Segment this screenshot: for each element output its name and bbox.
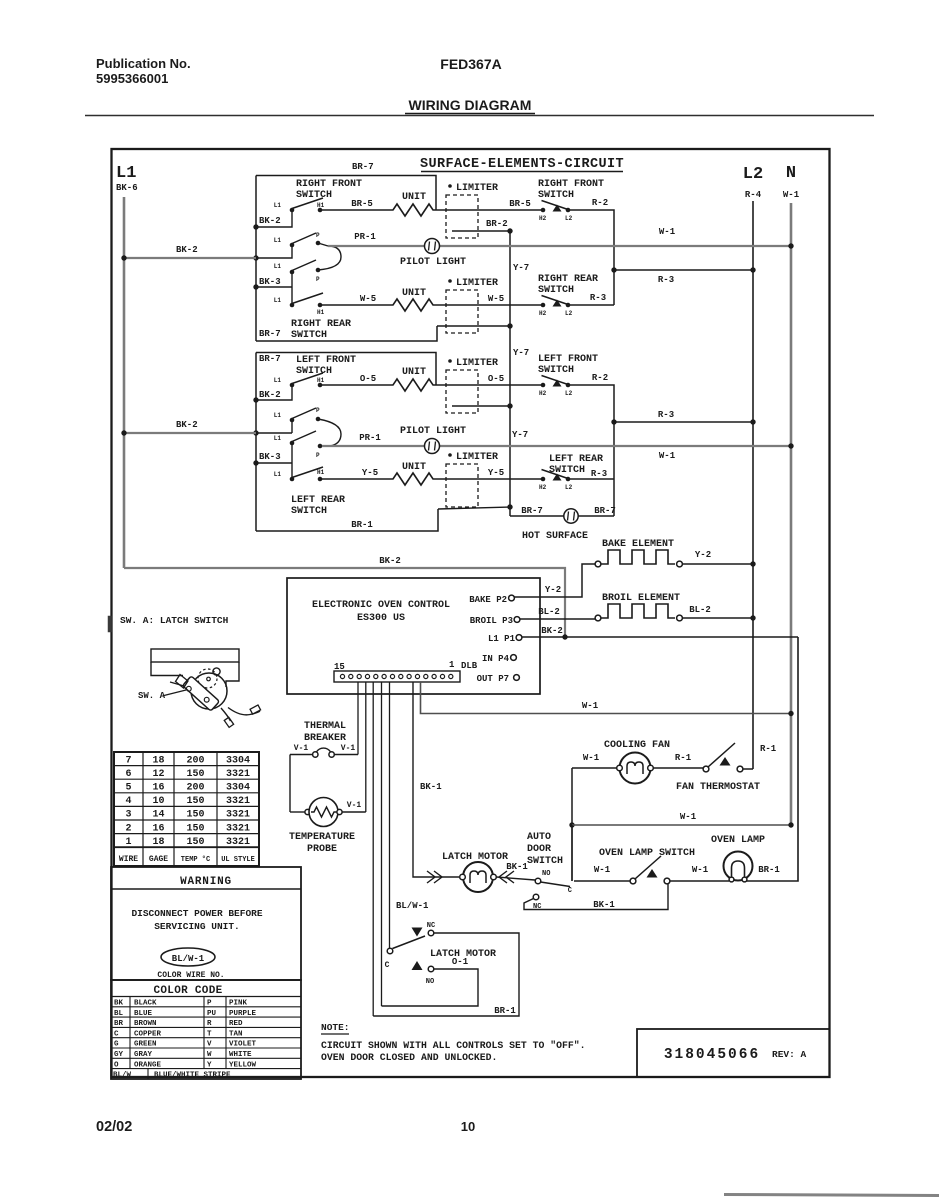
svg-text:BR: BR <box>114 1020 124 1028</box>
wire stub to pilot2 upper <box>256 420 292 433</box>
header publication number text <box>96 56 191 86</box>
label SW. A: LATCH SWITCH <box>120 615 229 626</box>
wire label Y-2 (bake right) <box>695 550 711 560</box>
svg-text:W-1: W-1 <box>582 701 599 711</box>
svg-text:BAKE ELEMENT: BAKE ELEMENT <box>602 539 674 550</box>
svg-text:12: 12 <box>152 769 164 780</box>
wire BK-2 feed 2 from L1 rail <box>121 430 256 435</box>
label ES300 US <box>357 613 405 624</box>
scan artifact line bottom right <box>724 1195 939 1196</box>
svg-text:L2: L2 <box>565 390 573 397</box>
wire label BK-2 (group1) <box>259 216 281 226</box>
wire label W-1 (to lamp sw) <box>594 865 611 875</box>
label LEFT FRONT SWITCH (right) <box>538 354 598 376</box>
pin label H1 (lf) <box>317 377 325 384</box>
resistor UNIT right rear <box>389 299 437 311</box>
wire W-1 lamp neutral line <box>572 824 789 826</box>
bake element coil <box>601 550 675 564</box>
pin label L1 (pilot lower) <box>274 263 282 270</box>
junction g2 y400 <box>253 397 258 402</box>
svg-text:150: 150 <box>186 769 204 780</box>
wire R-2 to drop <box>568 210 614 305</box>
svg-text:3321: 3321 <box>226 837 250 848</box>
svg-text:L2: L2 <box>565 310 573 317</box>
label LATCH MOTOR (lower) <box>430 949 496 960</box>
wire label R-3 (rr) <box>590 293 606 303</box>
label LEFT REAR SWITCH (right) <box>549 454 603 476</box>
wire PR-1 / W-1 pilot line (lower) <box>322 445 789 447</box>
pin number 1 and DLB <box>449 660 478 671</box>
svg-text:10: 10 <box>461 1119 475 1134</box>
warning text <box>131 908 262 932</box>
wire pin to temperature probe <box>365 682 367 812</box>
svg-text:ELECTRONIC OVEN CONTROL: ELECTRONIC OVEN CONTROL <box>312 600 450 611</box>
junction g2 y433 <box>253 430 258 435</box>
wire group 2 bottom run <box>256 509 438 531</box>
label LEFT FRONT SWITCH (left) <box>296 355 356 377</box>
label LEFT REAR SWITCH (left) <box>291 495 345 517</box>
svg-text:SWITCH: SWITCH <box>538 190 574 201</box>
EOC control box <box>287 578 540 694</box>
color code table <box>111 980 301 1080</box>
svg-text:BLUE: BLUE <box>134 1010 153 1018</box>
pin label H2 (rr) <box>539 310 547 317</box>
svg-text:VIOLET: VIOLET <box>229 1041 257 1049</box>
svg-text:Y-5: Y-5 <box>488 468 504 478</box>
svg-text:V: V <box>207 1041 212 1049</box>
label REV: A <box>772 1049 807 1060</box>
lower latch NC contact <box>412 928 434 937</box>
svg-text:150: 150 <box>186 796 204 807</box>
wire label BR-7 (hs left) <box>521 506 543 516</box>
svg-text:HOT SURFACE: HOT SURFACE <box>522 531 588 542</box>
svg-text:OVEN DOOR CLOSED AND UNLOCKED.: OVEN DOOR CLOSED AND UNLOCKED. <box>321 1052 497 1063</box>
svg-text:L2: L2 <box>743 165 763 184</box>
svg-text:V-1: V-1 <box>341 744 356 753</box>
latch switch cords and plugs <box>221 705 261 727</box>
svg-text:P: P <box>316 232 320 239</box>
svg-text:200: 200 <box>186 783 204 794</box>
svg-text:BK-1: BK-1 <box>593 900 615 910</box>
svg-text:BK-3: BK-3 <box>259 277 281 287</box>
svg-text:R: R <box>207 1020 212 1028</box>
svg-text:BR-7: BR-7 <box>259 329 281 339</box>
junction on left bus y287 <box>253 284 258 289</box>
svg-text:BK-3: BK-3 <box>259 452 281 462</box>
oven lamp <box>724 852 753 882</box>
svg-text:WIRING DIAGRAM: WIRING DIAGRAM <box>409 97 532 113</box>
svg-text:ORANGE: ORANGE <box>134 1061 162 1069</box>
junction R-3 node 2 <box>611 419 616 424</box>
pin label L1 (p2l) <box>274 435 282 442</box>
svg-text:LIMITER: LIMITER <box>456 278 498 289</box>
svg-text:Y: Y <box>207 1061 212 1069</box>
label TEMPERATURE PROBE <box>289 832 355 855</box>
svg-text:BK: BK <box>114 1000 124 1008</box>
warning box frame <box>111 867 301 980</box>
svg-text:H1: H1 <box>317 377 325 384</box>
svg-text:OVEN LAMP: OVEN LAMP <box>711 835 765 846</box>
svg-text:BL/W: BL/W <box>113 1072 132 1080</box>
svg-text:W-1: W-1 <box>594 865 611 875</box>
svg-text:H2: H2 <box>539 310 547 317</box>
svg-text:Y-7: Y-7 <box>513 263 529 273</box>
svg-text:200: 200 <box>186 755 204 766</box>
label AUTO DOOR SWITCH <box>527 832 563 867</box>
wire label R-2 <box>592 198 608 208</box>
svg-text:CIRCUIT SHOWN WITH ALL CONTROL: CIRCUIT SHOWN WITH ALL CONTROLS SET TO "… <box>321 1040 586 1051</box>
pin label H2 (lf) <box>539 390 547 397</box>
switch pilot2 lower (L1/P) <box>290 431 323 448</box>
svg-text:BK-1: BK-1 <box>506 862 528 872</box>
limiter box 1 (right front) <box>446 195 478 238</box>
svg-text:H1: H1 <box>317 202 325 209</box>
wire BL/W-1 pin to door switch C <box>389 682 391 948</box>
svg-text:W-1: W-1 <box>659 451 676 461</box>
svg-text:SW. A: LATCH SWITCH: SW. A: LATCH SWITCH <box>120 615 229 626</box>
broil element coil <box>601 604 675 618</box>
svg-text:3321: 3321 <box>226 823 250 834</box>
wire limiter4 tap to BR-7 line <box>438 504 513 509</box>
svg-text:P: P <box>316 407 320 414</box>
svg-text:L2: L2 <box>565 484 573 491</box>
node L1 <box>116 164 136 183</box>
svg-text:GREEN: GREEN <box>134 1041 157 1049</box>
wire breaker to probe <box>289 755 291 813</box>
svg-text:5995366001: 5995366001 <box>96 71 168 86</box>
wire label BL-2 (P3) <box>538 607 560 617</box>
resistor UNIT left front <box>389 379 437 391</box>
svg-text:BLACK: BLACK <box>134 1000 157 1008</box>
wire broil to BROIL P3 <box>520 618 595 620</box>
svg-text:R-2: R-2 <box>592 373 608 383</box>
label HOT SURFACE <box>522 531 588 542</box>
svg-text:BR-7: BR-7 <box>352 162 374 172</box>
svg-text:R-3: R-3 <box>591 469 607 479</box>
wire label O-1 <box>452 957 469 967</box>
svg-text:DISCONNECT POWER BEFORE: DISCONNECT POWER BEFORE <box>131 908 262 919</box>
svg-text:BR-2: BR-2 <box>486 219 508 229</box>
wire N rail (W-1) <box>790 203 793 825</box>
svg-text:BK-2: BK-2 <box>259 216 281 226</box>
svg-text:6: 6 <box>125 769 131 780</box>
wire BR-7 group 2 box top/right <box>256 353 436 386</box>
pin label L1 (lr) <box>274 471 282 478</box>
wire bake to BAKE P2 <box>514 564 595 597</box>
wire label Y-5 <box>362 468 378 478</box>
auto door switch NC contact <box>533 894 541 911</box>
label ELECTRONIC OVEN CONTROL <box>312 600 450 611</box>
wire BK-2 feed from L1 rail <box>121 255 256 260</box>
resistor UNIT right front <box>389 204 437 216</box>
wire group 2 left bus <box>255 353 257 532</box>
svg-text:DOOR: DOOR <box>527 844 551 855</box>
svg-text:3304: 3304 <box>226 755 250 766</box>
node L2 <box>743 165 763 184</box>
svg-text:150: 150 <box>186 823 204 834</box>
border scan blotch <box>108 616 112 632</box>
svg-text:BROWN: BROWN <box>134 1020 157 1028</box>
svg-text:BK-2: BK-2 <box>176 245 198 255</box>
label RIGHT REAR SWITCH (right) <box>538 274 598 296</box>
svg-text:W-1: W-1 <box>692 865 709 875</box>
label LIMITER 3 <box>448 358 498 369</box>
part number 318045066 <box>664 1047 760 1063</box>
svg-text:FAN THERMOSTAT: FAN THERMOSTAT <box>676 782 760 793</box>
svg-text:SWITCH: SWITCH <box>296 190 332 201</box>
wire label W-1 (lamp left) <box>692 865 709 875</box>
wire label BK-2 (feed2) <box>176 420 198 430</box>
cooling fan motor <box>572 753 703 784</box>
svg-text:O: O <box>114 1061 119 1069</box>
wire limiter3 tap to Y-7 <box>452 403 513 408</box>
svg-text:L1: L1 <box>274 202 282 209</box>
note text <box>321 1040 586 1063</box>
part number box <box>637 1029 830 1077</box>
wire label BK-1 (door sw) <box>506 862 528 872</box>
switch right front surface (L1/H1) <box>290 198 323 212</box>
wire unit to right front switch 2 <box>437 209 543 211</box>
wire label R-3 (lr) <box>591 469 607 479</box>
svg-text:WIRE: WIRE <box>119 855 138 864</box>
pin label L2 <box>565 215 573 222</box>
pin label L1 (p2u) <box>274 412 282 419</box>
auto door switch lever <box>541 882 571 887</box>
label OVEN LAMP <box>711 835 765 846</box>
svg-text:W-1: W-1 <box>659 227 676 237</box>
svg-text:W-1: W-1 <box>783 190 800 200</box>
svg-text:COOLING FAN: COOLING FAN <box>604 740 670 751</box>
svg-text:RED: RED <box>229 1020 243 1028</box>
svg-text:7: 7 <box>125 755 131 766</box>
pin label L1 <box>274 202 282 209</box>
svg-text:C: C <box>114 1030 119 1038</box>
label BROIL ELEMENT <box>602 593 680 604</box>
svg-text:LEFT FRONT: LEFT FRONT <box>296 355 356 366</box>
svg-text:PR-1: PR-1 <box>354 232 376 242</box>
label LIMITER 2 <box>448 278 498 289</box>
wire group 1 bottom run <box>256 326 437 341</box>
hot surface indicator light <box>564 509 578 523</box>
svg-text:Y-2: Y-2 <box>545 585 561 595</box>
svg-text:TEMPERATURE: TEMPERATURE <box>289 832 355 843</box>
svg-text:L1: L1 <box>274 237 282 244</box>
wire BK-1 pin to latch motor <box>413 682 459 877</box>
svg-text:OUT P7: OUT P7 <box>477 674 509 684</box>
svg-text:BK-6: BK-6 <box>116 183 138 193</box>
svg-text:PILOT LIGHT: PILOT LIGHT <box>400 257 466 268</box>
wire label BK-3 (group1) <box>259 277 281 287</box>
svg-text:3321: 3321 <box>226 769 250 780</box>
wire lamp switch to oven lamp <box>670 880 729 882</box>
svg-text:SWITCH: SWITCH <box>538 285 574 296</box>
wire label R-1 (fan right) <box>675 753 692 763</box>
wire label R-2 (lf) <box>592 373 608 383</box>
wire Y-7 vertical bus <box>509 231 511 516</box>
svg-text:BR-7: BR-7 <box>259 354 281 364</box>
svg-text:NO: NO <box>542 870 550 878</box>
terminal BROIL P3 <box>470 616 520 626</box>
label COOLING FAN <box>604 740 670 751</box>
connector chevrons left of latch motor <box>427 871 442 883</box>
svg-text:LIMITER: LIMITER <box>456 358 498 369</box>
wire BR-7 top run (group 1 box top/right) <box>256 176 436 211</box>
header model number FED367A <box>440 56 501 72</box>
wire R-3 right rear up to node <box>568 304 614 306</box>
wire label W-1 (N rail) <box>783 190 800 200</box>
wire NO loop <box>382 969 479 1006</box>
EOC connector strip P1 pins 15..1 <box>334 671 460 682</box>
label THERMAL BREAKER <box>304 721 346 744</box>
svg-text:BK-1: BK-1 <box>420 782 442 792</box>
switch left rear surface (L1/H1) <box>290 467 323 481</box>
pin label H2 <box>539 215 547 222</box>
svg-text:R-4: R-4 <box>745 190 762 200</box>
wire L1 P1 to right drop <box>522 634 798 639</box>
latch switch illustration bracket <box>151 649 239 687</box>
svg-text:BK-2: BK-2 <box>541 626 563 636</box>
wire label BK-1 (latch motor feed) <box>420 782 442 792</box>
terminal L1 P1 <box>488 634 522 644</box>
svg-text:P: P <box>316 452 320 459</box>
label PILOT LIGHT (upper) <box>400 257 466 268</box>
node N <box>786 164 796 183</box>
pin number 15 <box>334 662 345 672</box>
svg-text:16: 16 <box>152 823 164 834</box>
pin label P (p2l) <box>316 452 320 459</box>
svg-text:18: 18 <box>152 755 164 766</box>
pilot light lower <box>425 439 440 454</box>
pin label L1 (right rear) <box>274 297 282 304</box>
label COLOR WIRE NO. <box>157 971 224 980</box>
svg-text:L1: L1 <box>274 377 282 384</box>
latch motor (upper) <box>460 862 497 892</box>
svg-text:L1: L1 <box>274 263 282 270</box>
svg-text:BR-7: BR-7 <box>521 506 543 516</box>
wire C to oven lamp switch <box>574 880 630 882</box>
bake element terminals <box>595 561 682 567</box>
pin label P (p2u) <box>316 407 320 414</box>
svg-text:LEFT REAR: LEFT REAR <box>549 454 603 465</box>
wire stub to left front switch L1 <box>256 385 292 400</box>
pin label H1 (right rear) <box>317 309 325 316</box>
wire stub to pilot switch P (upper) <box>256 245 292 258</box>
svg-text:UNIT: UNIT <box>402 288 426 299</box>
svg-text:RIGHT FRONT: RIGHT FRONT <box>538 179 604 190</box>
svg-text:BL-2: BL-2 <box>538 607 560 617</box>
svg-text:W: W <box>207 1051 212 1059</box>
svg-text:RIGHT REAR: RIGHT REAR <box>291 319 351 330</box>
svg-text:FED367A: FED367A <box>440 56 501 72</box>
svg-text:G: G <box>114 1041 119 1049</box>
wire label O-5 (right) <box>488 374 504 384</box>
wire label BR-1 (group2 bottom) <box>351 520 373 530</box>
svg-text:H2: H2 <box>539 215 547 222</box>
svg-text:IN P4: IN P4 <box>482 654 510 664</box>
svg-text:H2: H2 <box>539 390 547 397</box>
wire NC branch to lamp switch output <box>524 881 668 910</box>
wire O-5 H1 to unit <box>320 384 389 386</box>
svg-text:L1: L1 <box>274 297 282 304</box>
svg-text:02/02: 02/02 <box>96 1119 132 1135</box>
svg-text:V-1: V-1 <box>294 744 309 753</box>
svg-text:L1: L1 <box>116 164 136 183</box>
wire L1 rail (BK-6) <box>123 197 126 568</box>
wire pin to latch NO loop <box>381 682 383 1006</box>
wire label R-3 (to L2) <box>658 275 674 285</box>
svg-text:14: 14 <box>152 810 164 821</box>
wire PR-1 / W-1 pilot line (upper) <box>328 245 789 247</box>
wire P to PR-1 <box>318 243 328 246</box>
wire label Y-2 (P2) <box>545 585 561 595</box>
label LATCH MOTOR (upper) <box>442 852 508 863</box>
wire label W-1 (lower pilot run) <box>659 451 676 461</box>
svg-text:BREAKER: BREAKER <box>304 733 346 744</box>
svg-text:NC: NC <box>427 922 435 930</box>
svg-text:150: 150 <box>186 837 204 848</box>
wire R-3 left rear to drop <box>568 478 614 480</box>
switch right rear line-break (H2/L2) <box>541 296 571 308</box>
svg-text:SWITCH: SWITCH <box>527 856 563 867</box>
svg-text:RIGHT REAR: RIGHT REAR <box>538 274 598 285</box>
svg-text:Publication No.: Publication No. <box>96 56 191 71</box>
svg-text:SWITCH: SWITCH <box>291 506 327 517</box>
svg-text:TEMP °C: TEMP °C <box>181 855 210 864</box>
pin label P (upper) <box>316 232 320 239</box>
wire label V-1 (breaker right) <box>341 744 356 753</box>
svg-text:BR-5: BR-5 <box>351 199 373 209</box>
resistor UNIT left rear <box>389 473 437 485</box>
label RIGHT FRONT SWITCH (left) <box>296 179 362 201</box>
svg-text:PU: PU <box>207 1010 217 1018</box>
svg-text:P: P <box>207 1000 212 1008</box>
svg-text:O-1: O-1 <box>452 957 469 967</box>
wire W-5 H1 to unit <box>320 304 389 306</box>
junction g2 y463 <box>253 460 258 465</box>
svg-text:BLUE/WHITE STRIPE: BLUE/WHITE STRIPE <box>154 1072 231 1080</box>
wire label BR-5 <box>351 199 373 209</box>
wire label BR-5 (right) <box>509 199 531 209</box>
junction fan drop at W-1 lamp line <box>569 822 574 827</box>
label UNIT (left rear) <box>402 462 426 473</box>
svg-text:BK-2: BK-2 <box>176 420 198 430</box>
svg-text:OVEN LAMP SWITCH: OVEN LAMP SWITCH <box>599 848 695 859</box>
color wire number example <box>161 948 215 966</box>
terminal BAKE P2 <box>469 595 514 605</box>
pin label H1 <box>317 202 325 209</box>
junction W-1 at N rail (upper) <box>788 243 793 248</box>
svg-text:R-3: R-3 <box>658 410 674 420</box>
wire broil to L2 rail <box>682 615 756 620</box>
wire unit to right rear switch 2 <box>437 304 543 306</box>
svg-text:1: 1 <box>125 837 131 848</box>
diagram border frame <box>112 149 830 1077</box>
wire label PR-1 (lower) <box>359 433 381 443</box>
svg-text:SWITCH: SWITCH <box>538 365 574 376</box>
label LIMITER 1 <box>448 183 498 194</box>
limiter box 3 (left front) <box>446 370 478 413</box>
svg-text:P: P <box>316 276 320 283</box>
wire label W-1 (upper pilot run) <box>659 227 676 237</box>
svg-text:L1 P1: L1 P1 <box>488 634 516 644</box>
wire NC loop <box>373 933 519 1016</box>
svg-text:SERVICING UNIT.: SERVICING UNIT. <box>154 921 240 932</box>
footer date 02/02 <box>96 1119 132 1135</box>
wire label BR-7 (group1 bottom) <box>259 329 281 339</box>
svg-text:BL-2: BL-2 <box>689 605 711 615</box>
wire label V-1 (probe) <box>347 801 362 810</box>
svg-text:18: 18 <box>152 837 164 848</box>
